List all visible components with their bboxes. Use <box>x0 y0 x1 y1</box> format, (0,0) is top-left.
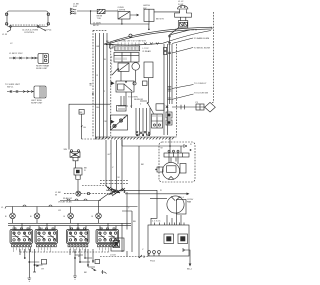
wires console lower extras <box>118 96 147 109</box>
svg-text:L TOP: L TOP <box>143 48 150 50</box>
label BL <box>81 126 87 130</box>
svg-text:SURF UNIT: SURF UNIT <box>31 103 43 105</box>
wire S2 to cord <box>154 11 180 13</box>
wire stub P102 left <box>139 255 144 258</box>
label L-TOP <box>143 48 152 53</box>
oven lamp <box>76 191 81 196</box>
connector P4 row <box>156 102 215 112</box>
wire right margin dashed <box>213 12 215 102</box>
svg-text:TO DOOR SW: TO DOOR SW <box>194 93 209 95</box>
junction box J1 <box>178 21 188 28</box>
wire clock left lead <box>2 27 11 37</box>
strain relief tee <box>175 9 192 20</box>
svg-text:BU: BU <box>97 107 100 109</box>
connector P102 pins <box>148 251 161 263</box>
svg-text:OR: OR <box>104 121 108 123</box>
svg-text:SW L1: SW L1 <box>7 87 14 89</box>
wire to relay K1 <box>77 10 97 11</box>
terminal cluster X marks <box>130 106 150 136</box>
wire T1 to S2 <box>130 14 139 16</box>
terminal block TB1 labels <box>178 1 184 6</box>
wire bottom bus dashed <box>14 247 111 252</box>
label L1 lamp row <box>55 192 61 197</box>
svg-text:CONV: CONV <box>187 199 194 201</box>
control block P100 <box>148 221 189 257</box>
label 240V <box>93 23 102 28</box>
svg-text:M: M <box>158 168 160 170</box>
callout oven light leader <box>172 83 207 88</box>
switch SW1 <box>10 228 33 244</box>
label fan <box>179 197 185 199</box>
fan terminal strip <box>164 149 191 157</box>
component pair right <box>166 110 172 125</box>
connector tab console left <box>110 45 114 49</box>
label element lead <box>171 30 198 35</box>
power cord dome <box>178 5 188 9</box>
svg-text:VIOLET W-BK: VIOLET W-BK <box>58 202 72 204</box>
wire clock right lead to P14 <box>38 27 52 32</box>
fan side component <box>180 164 186 174</box>
wire lock dashed <box>100 251 148 274</box>
wires console internal <box>121 70 149 108</box>
svg-text:CONTROL: CONTROL <box>24 32 35 34</box>
component box C1 <box>152 114 163 128</box>
label oven sensor <box>128 97 143 102</box>
svg-text:L1 BK: L1 BK <box>73 4 79 6</box>
wire lower loop <box>91 11 149 30</box>
wires to bottom terminal cluster <box>136 108 150 135</box>
fan motor enclosure <box>159 142 195 182</box>
oven light switch S4 <box>64 149 81 157</box>
svg-text:BU: BU <box>133 221 136 223</box>
svg-text:BK W R: BK W R <box>156 19 164 21</box>
wire drop to lock <box>126 192 128 222</box>
svg-text:TO BROIL ELEM: TO BROIL ELEM <box>194 47 211 49</box>
svg-text:TOD: TOD <box>97 18 102 20</box>
door lock component <box>110 238 124 257</box>
wire drops console to junction <box>106 140 122 190</box>
label surface unit top <box>10 43 13 45</box>
lamp B4 <box>92 201 102 224</box>
wire dashed junction left <box>82 180 128 185</box>
label terminal box <box>156 19 164 21</box>
console enclosure <box>93 30 177 137</box>
wire runs vertical bundle <box>96 33 108 139</box>
lamp B2 <box>30 207 40 224</box>
wire drops to harness right <box>122 211 132 252</box>
wire BK label box <box>79 110 84 140</box>
svg-text:TO P14: TO P14 <box>44 30 52 32</box>
switch terminals row <box>12 245 118 247</box>
connector stack door switch <box>70 8 76 14</box>
svg-text:L1 BK: L1 BK <box>55 192 61 194</box>
callout bake leader <box>172 37 209 43</box>
label violet <box>58 202 72 204</box>
wire S2 down to element <box>148 21 150 24</box>
svg-text:LEFT SIDE: LEFT SIDE <box>31 100 42 102</box>
switch SW3 <box>67 228 90 244</box>
relay K3 <box>116 81 134 92</box>
terminal strip ERC <box>115 46 140 51</box>
label receptacle <box>36 64 50 70</box>
switch S3 assembly <box>111 115 128 130</box>
switch SW2 <box>35 228 58 244</box>
component pair tiny <box>164 48 167 55</box>
pilot circle <box>132 63 140 71</box>
wire oven feed L <box>69 104 110 149</box>
wire labels above blocks <box>12 228 104 230</box>
receptacle R2 <box>34 86 46 98</box>
transformer T1 <box>118 7 131 19</box>
svg-text:TO BAKE ELEM: TO BAKE ELEM <box>194 37 210 40</box>
svg-text:R REAR: R REAR <box>143 50 152 53</box>
blower motor M2 <box>150 196 194 214</box>
sensor connector box <box>117 106 127 112</box>
svg-text:BK W: BK W <box>93 25 99 27</box>
switch SW4 <box>96 228 119 244</box>
switch S2 <box>143 4 154 21</box>
svg-text:RIGHT REAR: RIGHT REAR <box>36 64 50 67</box>
svg-text:BK W R BU OR Y GY V BK W R: BK W R BU OR Y GY V BK W R <box>115 41 146 43</box>
note box <box>155 167 163 172</box>
thermal fuse F1 <box>74 168 87 194</box>
surface unit chain 2 <box>7 90 34 92</box>
callout door leader <box>172 93 209 100</box>
svg-text:SURF UNIT: SURF UNIT <box>36 68 48 70</box>
wire upper bus <box>60 198 101 201</box>
node L1 labels <box>73 4 79 9</box>
junction cluster <box>99 186 125 201</box>
wire callout riser <box>168 35 172 104</box>
node L1 bottom <box>1 207 4 209</box>
junction ticks <box>90 84 94 95</box>
wire J1 to callout chain <box>169 28 178 35</box>
connector arrow console edge 2 <box>111 120 115 124</box>
wires bar to motor <box>169 157 178 164</box>
wires console right verticals <box>112 44 168 135</box>
svg-text:BK W: BK W <box>192 30 198 32</box>
svg-text:BU-1: BU-1 <box>187 269 193 271</box>
wire bank connects <box>14 223 116 229</box>
clock label <box>22 30 39 35</box>
wire junction to fan arrow <box>125 193 190 196</box>
svg-text:TO OVEN: TO OVEN <box>128 97 138 99</box>
fan motor M1 <box>158 158 180 180</box>
clock assembly A1 <box>5 11 49 27</box>
svg-text:1 2 3 4 5: 1 2 3 4 5 <box>152 221 161 223</box>
wire relay to transformer T1 <box>105 10 118 12</box>
harness cluster left <box>20 249 47 281</box>
relay K2 <box>112 63 129 75</box>
svg-text:W-BK GY: W-BK GY <box>63 198 73 200</box>
relay K1 (hatched box) <box>97 9 105 20</box>
label receptacle R2 <box>31 100 43 105</box>
wire lamp row right dashed <box>81 193 108 195</box>
wire lamp row left <box>64 193 76 195</box>
console top labels <box>115 41 159 47</box>
wires into control block <box>167 215 181 225</box>
wire junction to blower <box>122 190 157 225</box>
wire lamp bus lines <box>8 223 131 225</box>
svg-text:L1 BK R 120V: L1 BK R 120V <box>9 53 23 55</box>
receptacle R1 <box>38 54 49 64</box>
svg-text:TO OVEN LT: TO OVEN LT <box>194 83 207 85</box>
pilot small circle <box>133 82 136 85</box>
wire color labels scatter <box>58 46 192 251</box>
console bottom hatched edge <box>95 137 177 139</box>
wire dashed to console <box>82 138 105 140</box>
surface unit chain 1 <box>9 57 38 59</box>
control block switches <box>164 234 188 244</box>
lamp B3 <box>64 207 74 224</box>
svg-text:P102: P102 <box>150 261 156 263</box>
surface unit chain 1 labels <box>9 53 23 55</box>
console left inner edge <box>110 42 112 136</box>
svg-text:TO SURF UNIT: TO SURF UNIT <box>5 84 21 86</box>
component small square <box>143 81 148 86</box>
harness cluster mid <box>70 249 100 279</box>
bake element outline <box>104 27 212 45</box>
connector BU1 lead <box>183 248 193 271</box>
svg-text:FAN: FAN <box>187 201 192 204</box>
wire long drop to P102 <box>138 146 140 258</box>
connector arrow console edge <box>111 81 115 85</box>
control board ERC <box>114 52 139 62</box>
callout broil leader <box>172 47 210 53</box>
surface unit chain 2 labels <box>5 84 21 89</box>
wire top bus <box>5 205 138 209</box>
svg-text:LATCH: LATCH <box>143 4 150 7</box>
wire S4 to thermal fuse <box>73 157 78 168</box>
lamp B1 <box>5 207 15 224</box>
component tall resistor <box>144 62 153 78</box>
switch lever <box>147 102 154 113</box>
wire M2 down <box>176 213 178 225</box>
wire console to fan box <box>122 137 187 153</box>
